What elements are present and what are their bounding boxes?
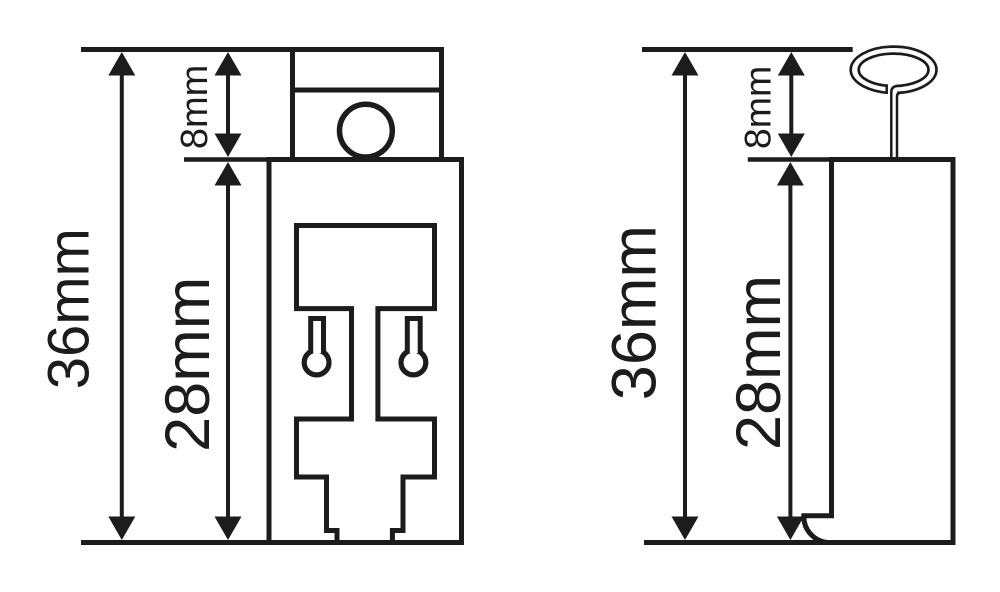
loop ring inner (859, 54, 929, 86)
keyhole left (304, 319, 329, 375)
extension line bottom left (81, 540, 464, 545)
svg-text:28mm: 28mm (153, 277, 223, 452)
extension line bottom right (644, 540, 956, 545)
inner cutout left (297, 226, 435, 543)
dimension arrow 8mm right (778, 52, 805, 157)
side body outline right (804, 160, 953, 543)
extension line middle right (748, 157, 836, 162)
extension line top right (642, 47, 853, 52)
keyhole right (401, 319, 426, 375)
loop stem (887, 82, 903, 159)
roller circle (340, 104, 393, 157)
svg-text:8mm: 8mm (174, 65, 216, 149)
svg-text:36mm: 36mm (599, 225, 669, 400)
dimension arrow 28mm left (215, 162, 242, 540)
loop ring outer (851, 47, 937, 93)
dimension arrow 8mm left (215, 52, 242, 157)
dimension arrow 36mm right (672, 52, 699, 540)
svg-text:28mm: 28mm (724, 275, 794, 450)
svg-text:8mm: 8mm (736, 66, 778, 149)
dimension arrow 28mm right (777, 162, 804, 540)
dimension arrow 36mm left (108, 52, 135, 540)
extension line middle left (184, 157, 270, 162)
svg-text:36mm: 36mm (37, 228, 102, 389)
part top block left (293, 50, 442, 160)
extension line top left (81, 47, 444, 52)
main body outline left (269, 160, 462, 543)
